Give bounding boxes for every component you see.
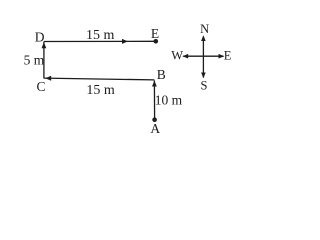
arrowhead on C-D pointing up at D (42, 42, 47, 48)
svg-text:N: N (200, 22, 209, 36)
node E dot (154, 39, 159, 44)
svg-text:10 m: 10 m (155, 92, 183, 107)
compass horizontal line W-E (183, 55, 223, 57)
svg-text:S: S (201, 79, 208, 93)
compass arrowhead W (left) (182, 54, 188, 59)
svg-text:C: C (37, 79, 46, 94)
svg-text:D: D (35, 30, 45, 45)
node A dot (152, 117, 157, 122)
wire A-B (right vertical segment) (153, 81, 155, 119)
svg-text:E: E (151, 26, 159, 41)
arrowhead on D-E pointing right (122, 39, 128, 44)
svg-text:W: W (171, 48, 183, 62)
compass vertical line N-S (202, 37, 204, 78)
arrowhead on B-C pointing left at C (45, 76, 51, 81)
svg-text:15 m: 15 m (86, 83, 115, 98)
svg-text:15 m: 15 m (86, 28, 115, 43)
svg-text:5 m: 5 m (24, 53, 45, 68)
compass arrowhead S (down) (201, 73, 206, 79)
wire D-E (top horizontal segment) (44, 40, 156, 42)
svg-text:B: B (157, 67, 166, 82)
svg-text:E: E (224, 48, 232, 62)
arrowhead on A-B pointing up at B (152, 81, 157, 87)
compass arrowhead E (right) (219, 54, 225, 59)
wire C-D (left vertical segment) (43, 42, 45, 79)
wire B-C (bottom horizontal segment) (44, 78, 154, 80)
compass arrowhead N (up) (201, 35, 206, 41)
svg-text:A: A (150, 121, 160, 136)
